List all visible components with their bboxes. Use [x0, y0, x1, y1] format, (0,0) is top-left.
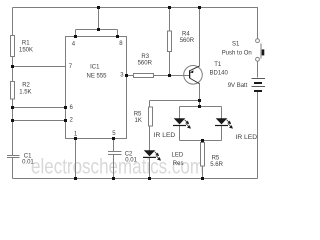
svg-text:R5: R5: [212, 156, 220, 162]
svg-text:0.01: 0.01: [125, 157, 137, 163]
svg-text:IC1: IC1: [90, 65, 100, 71]
svg-text:9V Batt: 9V Batt: [228, 83, 248, 89]
svg-text:1.5K: 1.5K: [19, 89, 31, 95]
svg-text:LED: LED: [172, 153, 184, 159]
svg-text:Res: Res: [173, 161, 184, 167]
svg-text:R3: R3: [141, 54, 149, 60]
svg-text:IR LED: IR LED: [236, 134, 258, 141]
svg-text:R2: R2: [22, 83, 30, 89]
svg-text:560R: 560R: [180, 38, 195, 44]
svg-text:Push to On: Push to On: [222, 51, 252, 57]
svg-text:BD140: BD140: [210, 71, 229, 77]
svg-text:R5: R5: [134, 111, 142, 117]
svg-text:NE 555: NE 555: [87, 74, 108, 80]
svg-text:IR LED: IR LED: [154, 132, 176, 139]
svg-text:T1: T1: [214, 62, 222, 68]
svg-text:5.6R: 5.6R: [210, 162, 223, 168]
svg-text:560R: 560R: [138, 61, 153, 67]
svg-text:R1: R1: [22, 41, 30, 47]
svg-text:0.01: 0.01: [22, 160, 34, 166]
svg-text:1K: 1K: [135, 118, 142, 124]
svg-text:150K: 150K: [19, 47, 33, 53]
svg-text:S1: S1: [232, 41, 240, 47]
svg-text:R4: R4: [182, 32, 190, 38]
